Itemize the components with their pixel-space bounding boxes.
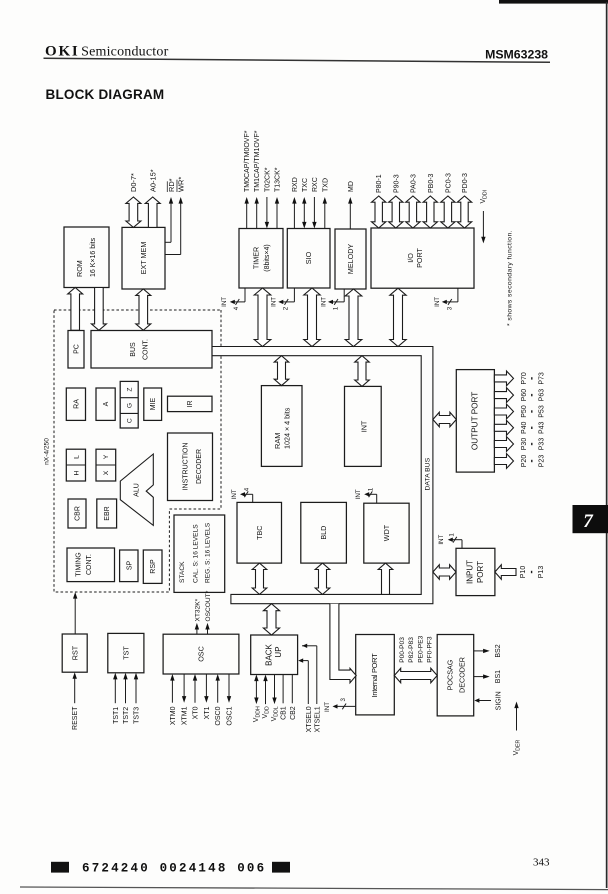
block EXT MEM bbox=[122, 227, 165, 289]
output pin P70-P73 bbox=[494, 371, 513, 386]
signal XT32K* bbox=[196, 627, 198, 634]
svg-text:P53: P53 bbox=[539, 405, 546, 418]
svg-text:PD0-3: PD0-3 bbox=[462, 173, 469, 193]
block TIMER bbox=[239, 229, 283, 289]
flags C G Z bbox=[120, 381, 138, 428]
svg-text:C: C bbox=[127, 418, 134, 423]
svg-text:Internal PORT: Internal PORT bbox=[370, 653, 379, 698]
input pins P10-P13 bbox=[495, 565, 516, 580]
supply VDDH bbox=[255, 679, 257, 700]
svg-text:PA0-3: PA0-3 bbox=[410, 174, 417, 193]
svg-text:P33: P33 bbox=[539, 438, 546, 451]
svg-text:1: 1 bbox=[449, 533, 456, 537]
header rule bbox=[44, 58, 551, 62]
svg-text:P63: P63 bbox=[539, 389, 546, 402]
port PD0-3 bbox=[457, 196, 471, 228]
port P80-1 bbox=[372, 196, 386, 228]
block BACK UP bbox=[251, 635, 298, 675]
block INT bbox=[345, 386, 382, 466]
svg-text:TM0CAP/TM0OVF*: TM0CAP/TM0OVF* bbox=[244, 130, 251, 192]
arrow data bus to BACK UP bbox=[263, 604, 279, 635]
svg-text:TST3: TST3 bbox=[134, 707, 141, 724]
signal RXD bbox=[293, 202, 295, 229]
svg-text:PE0-PE3: PE0-PE3 bbox=[417, 635, 424, 662]
signal WR* bbox=[165, 254, 181, 256]
svg-text:3: 3 bbox=[447, 306, 454, 310]
svg-text:XTM1: XTM1 bbox=[182, 706, 189, 725]
footer rule bbox=[20, 887, 608, 890]
svg-text:TBC: TBC bbox=[255, 526, 264, 540]
svg-text:P40: P40 bbox=[521, 421, 528, 434]
block INPUT PORT bbox=[456, 548, 495, 595]
svg-text:TIMING: TIMING bbox=[76, 552, 83, 577]
svg-text:INT: INT bbox=[324, 702, 331, 712]
svg-text:L: L bbox=[73, 455, 80, 459]
signal BS1 bbox=[474, 676, 486, 678]
svg-text:INT: INT bbox=[438, 534, 445, 544]
svg-text:TIMER: TIMER bbox=[252, 247, 261, 269]
svg-text:G: G bbox=[127, 403, 134, 408]
svg-text:CAL. S: 16 LEVELS: CAL. S: 16 LEVELS bbox=[192, 524, 199, 583]
interrupt INT 2 SIO bbox=[293, 288, 295, 302]
arrow INT to data bus bbox=[355, 356, 370, 387]
svg-text:P50: P50 bbox=[521, 405, 528, 418]
supply VDER bbox=[516, 706, 518, 731]
svg-text:INT: INT bbox=[359, 420, 368, 432]
svg-text:CB1: CB1 bbox=[281, 706, 288, 720]
svg-text:WDT: WDT bbox=[382, 524, 391, 541]
signal TM1CAP/TM1OVF* bbox=[256, 202, 258, 229]
footer mark left bbox=[51, 862, 69, 873]
svg-text:PF0-PF3: PF0-PF3 bbox=[426, 636, 433, 663]
svg-text:RA: RA bbox=[74, 399, 81, 409]
svg-text:SP: SP bbox=[126, 561, 133, 571]
interrupt INT 1 MELODY bbox=[343, 289, 345, 302]
svg-text:16 K×16 bits: 16 K×16 bits bbox=[90, 237, 97, 277]
page corner mark top right bbox=[499, 0, 608, 4]
svg-text:P90-3: P90-3 bbox=[393, 174, 400, 193]
svg-text:PORT: PORT bbox=[476, 561, 485, 583]
ALU bbox=[120, 454, 153, 525]
svg-text:MELODY: MELODY bbox=[346, 244, 355, 275]
supply VDDL bbox=[274, 675, 276, 700]
svg-text:DATA BUS: DATA BUS bbox=[424, 457, 431, 490]
signal XTSEL1 bbox=[316, 646, 318, 704]
svg-text:REG. S: 16 LEVELS: REG. S: 16 LEVELS bbox=[204, 522, 211, 583]
wire RST to core bbox=[74, 597, 76, 635]
block BLD bbox=[301, 502, 347, 563]
svg-text:BACK: BACK bbox=[264, 643, 273, 665]
block RA bbox=[66, 388, 85, 420]
svg-text:P30: P30 bbox=[521, 438, 528, 451]
svg-text:P60: P60 bbox=[521, 389, 528, 402]
arrow TBC to data bus bbox=[252, 563, 267, 594]
output pin P50-P53 bbox=[494, 404, 513, 419]
svg-text:CONT.: CONT. bbox=[143, 339, 150, 360]
svg-text:UP: UP bbox=[274, 646, 283, 657]
svg-text:OSCOUT*: OSCOUT* bbox=[205, 590, 212, 621]
signal OSC1 bbox=[228, 674, 230, 698]
signal XTM0 bbox=[171, 679, 173, 703]
supply VDD bbox=[265, 679, 267, 704]
svg-text:INPUT: INPUT bbox=[466, 560, 475, 584]
interrupt INT 4 TBC bbox=[252, 494, 254, 502]
block MIE bbox=[144, 388, 162, 420]
svg-text:MIE: MIE bbox=[150, 397, 157, 410]
svg-text:CONT.: CONT. bbox=[86, 554, 93, 575]
arrow PC to ROM bbox=[68, 288, 83, 331]
svg-text:RSP: RSP bbox=[150, 559, 157, 574]
svg-text:INT: INT bbox=[271, 297, 278, 307]
svg-text:P70: P70 bbox=[521, 372, 528, 385]
arrow SIO to data bus bbox=[304, 288, 320, 347]
svg-text:XTSEL0: XTSEL0 bbox=[306, 706, 313, 732]
block SIO bbox=[287, 229, 330, 289]
svg-text:RAM: RAM bbox=[273, 433, 282, 449]
svg-text:OSC1: OSC1 bbox=[227, 706, 234, 725]
svg-text:T13CK*: T13CK* bbox=[275, 167, 282, 192]
supply VDDI bbox=[482, 211, 484, 239]
section tab 7 bbox=[573, 505, 608, 533]
signal CB1 bbox=[282, 675, 284, 704]
svg-text:PC: PC bbox=[74, 344, 81, 354]
svg-text:I/O: I/O bbox=[406, 253, 415, 263]
svg-text:STACK: STACK bbox=[179, 561, 186, 583]
signal XT0 bbox=[194, 679, 196, 703]
signal TM0CAP/TM0OVF* bbox=[246, 202, 248, 229]
signal BS2 bbox=[474, 650, 486, 652]
svg-text:EXT MEM: EXT MEM bbox=[139, 242, 148, 275]
port PC0-3 bbox=[441, 196, 455, 228]
svg-text:OUTPUT PORT: OUTPUT PORT bbox=[470, 392, 479, 450]
interrupt INT 4 TIMER bbox=[244, 288, 246, 302]
footer mark right bbox=[272, 862, 290, 873]
block RAM bbox=[261, 386, 302, 467]
svg-text:Y: Y bbox=[103, 454, 110, 459]
block RSP bbox=[143, 550, 162, 583]
svg-text:XT32K*: XT32K* bbox=[194, 598, 201, 621]
svg-text:INT: INT bbox=[434, 297, 441, 307]
registers H L bbox=[66, 449, 85, 481]
core boundary nX-4/250 bbox=[54, 310, 221, 592]
arrow MELODY to data bus bbox=[345, 289, 362, 347]
interrupt INT 3 I/O PORT bbox=[457, 288, 459, 302]
block OUTPUT PORT bbox=[456, 370, 494, 473]
signal TXC bbox=[303, 202, 305, 225]
svg-text:7: 7 bbox=[583, 511, 594, 532]
svg-text:INT: INT bbox=[320, 297, 327, 307]
port PB0-3 bbox=[423, 196, 437, 228]
svg-text:BLD: BLD bbox=[319, 526, 328, 540]
block BUS CONT bbox=[91, 331, 212, 369]
block I/O PORT bbox=[371, 228, 474, 288]
svg-text:DECODER: DECODER bbox=[196, 449, 203, 484]
svg-text:BUS: BUS bbox=[130, 342, 137, 357]
registers X Y bbox=[96, 449, 116, 481]
svg-text:RXC: RXC bbox=[312, 177, 319, 192]
signal TXD bbox=[324, 202, 326, 229]
page right edge line bbox=[606, 2, 608, 888]
svg-text:4: 4 bbox=[233, 306, 240, 310]
block POCSAG DECODER bbox=[437, 635, 474, 716]
svg-text:343: 343 bbox=[533, 857, 550, 869]
block Internal Port bbox=[356, 635, 395, 715]
block RST bbox=[62, 634, 87, 672]
svg-text:OSC0: OSC0 bbox=[215, 706, 222, 725]
svg-text:ROM: ROM bbox=[75, 260, 84, 277]
svg-text:MSM63238: MSM63238 bbox=[485, 48, 548, 62]
svg-text:MD: MD bbox=[348, 181, 355, 192]
svg-text:XT1: XT1 bbox=[204, 706, 211, 719]
block TST bbox=[108, 633, 144, 672]
svg-text:RESET: RESET bbox=[72, 706, 79, 730]
svg-text:TST1: TST1 bbox=[113, 707, 120, 724]
arrow RAM to data bus bbox=[274, 356, 289, 386]
block A bbox=[96, 388, 115, 420]
svg-text:BS2: BS2 bbox=[495, 644, 502, 657]
svg-text:CBR: CBR bbox=[75, 506, 82, 521]
signal RXC bbox=[313, 197, 315, 224]
svg-text:TXD: TXD bbox=[322, 178, 329, 192]
svg-text:INT: INT bbox=[355, 489, 362, 499]
svg-text:P20: P20 bbox=[521, 455, 528, 468]
data bus bbox=[212, 347, 433, 604]
block EBR bbox=[97, 499, 117, 528]
signal OSC0 bbox=[217, 679, 219, 703]
signal MD bbox=[349, 202, 351, 230]
svg-text:nX-4/250: nX-4/250 bbox=[43, 438, 50, 465]
block STACK bbox=[174, 515, 225, 592]
svg-text:P13: P13 bbox=[538, 566, 545, 579]
svg-text:BLOCK DIAGRAM: BLOCK DIAGRAM bbox=[46, 87, 165, 102]
svg-text:INT: INT bbox=[231, 489, 238, 499]
svg-text:XTSEL1: XTSEL1 bbox=[314, 706, 321, 732]
svg-text:1: 1 bbox=[333, 306, 340, 310]
block OSC bbox=[163, 634, 239, 674]
svg-text:PORT: PORT bbox=[415, 247, 424, 267]
signal CB2 bbox=[291, 675, 293, 704]
block MELODY bbox=[335, 229, 366, 289]
svg-text:P82-P83: P82-P83 bbox=[408, 637, 415, 663]
svg-text:T02CK*: T02CK* bbox=[264, 167, 271, 192]
svg-text:4: 4 bbox=[244, 487, 251, 491]
svg-text:IR: IR bbox=[187, 401, 194, 408]
signal D0-7* bbox=[126, 197, 141, 227]
output pin P40-P43 bbox=[494, 420, 513, 435]
output pin P30-P33 bbox=[494, 437, 513, 452]
svg-text:6724240 0024148 006: 6724240 0024148 006 bbox=[82, 862, 266, 876]
svg-text:OSC: OSC bbox=[197, 646, 206, 662]
arrow data bus to Internal Port bbox=[330, 604, 356, 683]
svg-text:TST: TST bbox=[121, 646, 130, 660]
svg-text:A0-15*: A0-15* bbox=[148, 169, 157, 192]
svg-text:D0-7*: D0-7* bbox=[129, 173, 138, 192]
svg-text:* shows secondary function.: * shows secondary function. bbox=[506, 230, 513, 326]
signal A0-15* bbox=[145, 197, 160, 227]
svg-text:TST2: TST2 bbox=[123, 707, 130, 724]
svg-text:POCSAG: POCSAG bbox=[446, 659, 455, 690]
svg-text:TM1CAP/TM1OVF*: TM1CAP/TM1OVF* bbox=[254, 130, 261, 192]
svg-text:ALU: ALU bbox=[134, 483, 141, 497]
signal T13CK* bbox=[276, 202, 278, 229]
arrow data bus to WDT bbox=[378, 563, 393, 594]
interrupt INT 1 WDT bbox=[376, 494, 378, 503]
arrow data bus to OUTPUT PORT bbox=[433, 412, 456, 427]
arrow Internal Port to POCSAG DECODER bbox=[394, 668, 437, 683]
block TIMING CONT bbox=[67, 548, 115, 582]
svg-text:RST: RST bbox=[70, 645, 79, 660]
svg-text:P23: P23 bbox=[539, 455, 546, 468]
svg-text:X: X bbox=[103, 470, 110, 475]
arrow ROM to BUS CONT bbox=[91, 288, 106, 331]
svg-text:P80-1: P80-1 bbox=[376, 174, 383, 193]
svg-text:PC0-3: PC0-3 bbox=[445, 173, 452, 193]
block SP bbox=[120, 550, 138, 582]
signal SIGIN bbox=[479, 700, 491, 702]
svg-text:1024 × 4 bits: 1024 × 4 bits bbox=[282, 407, 291, 449]
svg-text:INT: INT bbox=[221, 297, 228, 307]
output pin P60-P63 bbox=[494, 388, 513, 403]
port P90-3 bbox=[389, 196, 403, 228]
svg-text:BS1: BS1 bbox=[495, 670, 502, 683]
svg-text:DECODER: DECODER bbox=[458, 657, 467, 693]
svg-text:SIGIN: SIGIN bbox=[496, 691, 503, 710]
svg-text:1: 1 bbox=[368, 487, 375, 491]
signal TST3 bbox=[135, 677, 137, 703]
signal T02CK* bbox=[266, 197, 268, 224]
svg-text:XTM0: XTM0 bbox=[170, 706, 177, 725]
arrow BLD to data bus bbox=[315, 563, 330, 594]
svg-text:WR*: WR* bbox=[177, 177, 186, 192]
signal TST2 bbox=[125, 677, 127, 703]
block TBC bbox=[237, 502, 282, 563]
port PA0-3 bbox=[406, 196, 420, 228]
output pin P20-P23 bbox=[494, 454, 513, 469]
svg-text:P73: P73 bbox=[539, 372, 546, 385]
svg-text:A: A bbox=[103, 401, 110, 406]
svg-text:INSTRUCTION: INSTRUCTION bbox=[183, 443, 190, 491]
signal TST1 bbox=[114, 677, 116, 703]
signal XTSEL0 bbox=[307, 661, 309, 704]
arrow TIMER to data bus bbox=[254, 288, 271, 347]
svg-text:EBR: EBR bbox=[104, 506, 111, 520]
arrow I/O PORT to data bus bbox=[390, 288, 406, 346]
svg-text:XT0: XT0 bbox=[193, 706, 200, 719]
arrow EXT MEM to BUS CONT bbox=[136, 289, 151, 330]
block WDT bbox=[364, 503, 409, 563]
svg-text:RXD: RXD bbox=[292, 177, 299, 192]
svg-text:RD*: RD* bbox=[167, 178, 176, 192]
arrow data bus to INPUT PORT bbox=[433, 565, 456, 580]
svg-text:(8bits×4): (8bits×4) bbox=[264, 244, 271, 271]
signal OSCOUT* bbox=[207, 627, 209, 634]
svg-text:SIO: SIO bbox=[304, 251, 313, 264]
signal RD* bbox=[165, 241, 171, 243]
svg-text:2: 2 bbox=[283, 306, 290, 310]
svg-text:3: 3 bbox=[340, 698, 347, 702]
block IR bbox=[168, 396, 213, 411]
svg-text:TXC: TXC bbox=[302, 178, 309, 192]
block PC bbox=[68, 331, 84, 369]
interrupt INT 1 INPUT PORT bbox=[461, 540, 463, 549]
signal XTM1 bbox=[183, 674, 185, 698]
svg-text:P43: P43 bbox=[539, 421, 546, 434]
svg-text:OKISemiconductor: OKISemiconductor bbox=[45, 44, 169, 60]
block INSTRUCTION DECODER bbox=[168, 433, 213, 501]
block ROM bbox=[64, 227, 109, 288]
block CBR bbox=[68, 499, 86, 528]
signal XT1 bbox=[205, 674, 207, 698]
interrupt INT 3 Internal Port bbox=[337, 705, 356, 707]
signal RESET bbox=[74, 677, 76, 704]
svg-text:CB2: CB2 bbox=[290, 706, 297, 720]
svg-text:PB0-3: PB0-3 bbox=[428, 173, 435, 193]
svg-text:P10: P10 bbox=[520, 566, 527, 579]
svg-text:P00-P03: P00-P03 bbox=[399, 637, 406, 663]
svg-text:H: H bbox=[73, 470, 80, 475]
svg-text:Z: Z bbox=[127, 387, 134, 391]
